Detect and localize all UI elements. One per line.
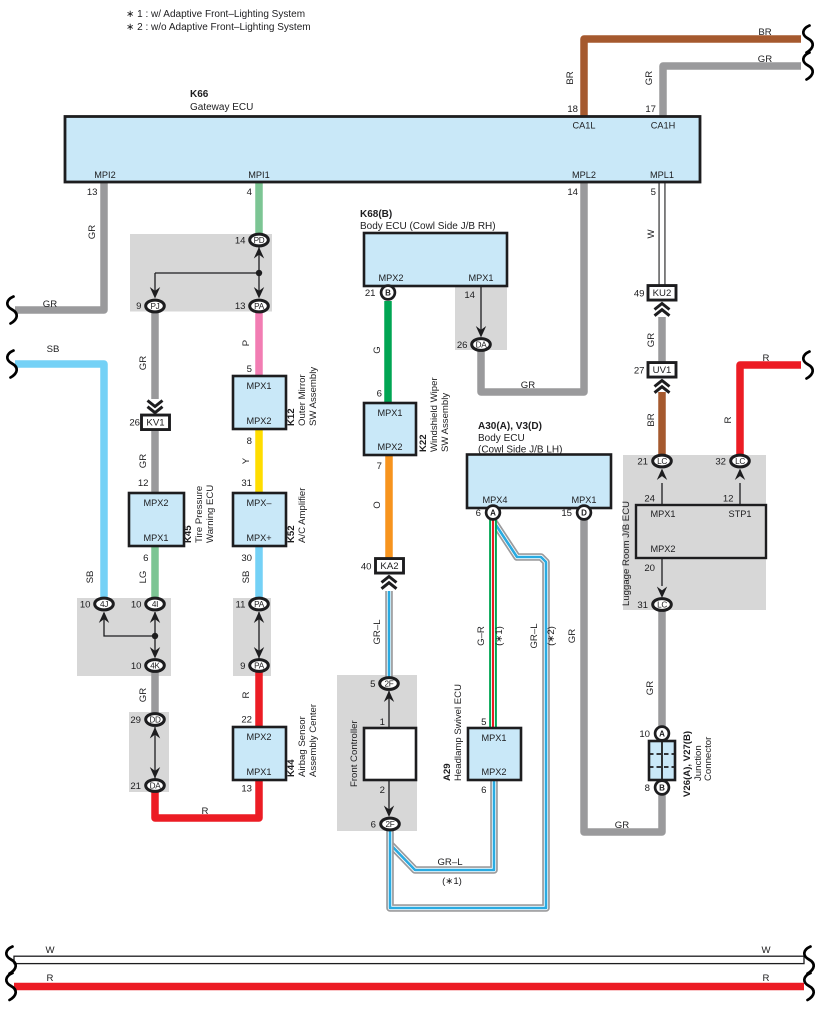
svg-text:R: R [241,691,252,698]
svg-text:PA: PA [254,600,265,609]
svg-text:GR: GR [615,820,629,831]
svg-text:K68(B): K68(B) [360,209,392,220]
svg-text:GR: GR [646,333,657,347]
svg-text:30: 30 [241,553,252,564]
svg-text:13: 13 [241,784,252,795]
svg-text:4K: 4K [150,661,160,670]
svg-text:KU2: KU2 [653,288,672,299]
svg-text:Y: Y [241,457,252,464]
svg-text:29: 29 [130,715,141,726]
svg-text:8: 8 [247,436,252,447]
svg-text:BR: BR [565,71,576,84]
svg-text:5: 5 [481,717,486,728]
svg-text:R: R [47,973,54,984]
svg-text:24: 24 [644,494,655,505]
svg-text:CA1L: CA1L [573,121,596,131]
svg-text:P: P [241,340,252,346]
svg-text:2F: 2F [386,820,395,829]
svg-text:SW Assembly: SW Assembly [308,367,319,426]
svg-text:14: 14 [464,290,475,301]
svg-text:W: W [761,945,771,956]
svg-text:MPX+: MPX+ [246,533,271,543]
svg-text:21: 21 [365,288,376,299]
svg-text:GR: GR [138,688,149,702]
svg-text:DA: DA [476,340,488,349]
svg-text:R: R [723,416,734,423]
svg-text:MPX–: MPX– [246,498,272,508]
svg-text:R: R [763,973,770,984]
svg-text:GR: GR [87,225,98,239]
svg-text:GR–L: GR–L [372,619,383,645]
svg-text:PA: PA [254,661,265,670]
svg-text:MPX4: MPX4 [482,495,507,505]
svg-text:10: 10 [639,729,650,740]
svg-text:GR: GR [138,356,149,370]
svg-text:UV1: UV1 [653,365,672,376]
svg-text:K45: K45 [183,525,194,543]
svg-text:MPX2: MPX2 [481,767,506,777]
svg-text:R: R [202,806,209,817]
svg-text:MPX1: MPX1 [143,533,168,543]
svg-text:6: 6 [481,785,486,796]
svg-text:LC: LC [735,457,745,466]
svg-text:W: W [45,945,55,956]
svg-text:LC: LC [657,600,667,609]
svg-text:Airbag Sensor: Airbag Sensor [297,715,308,777]
svg-text:KA2: KA2 [380,561,398,572]
svg-text:A29: A29 [442,763,453,781]
svg-text:PJ: PJ [151,302,160,311]
svg-text:LG: LG [138,571,149,584]
svg-text:21: 21 [637,457,648,468]
svg-text:MPX2: MPX2 [143,498,168,508]
svg-text:13: 13 [87,187,98,198]
svg-text:MPX1: MPX1 [377,408,402,418]
svg-text:MPX1: MPX1 [481,733,506,743]
svg-text:4I: 4I [152,600,158,609]
svg-text:CA1H: CA1H [651,121,676,131]
svg-text:PA: PA [254,302,265,311]
svg-text:10: 10 [131,600,142,611]
svg-text:Assembly Center: Assembly Center [308,703,319,777]
svg-text:31: 31 [241,478,252,489]
svg-text:Warning ECU: Warning ECU [205,485,216,543]
svg-text:4: 4 [247,187,253,198]
svg-text:49: 49 [634,288,645,299]
svg-text:R: R [763,353,770,364]
svg-text:SB: SB [85,571,96,584]
svg-text:A/C Amplifier: A/C Amplifier [297,487,308,543]
svg-text:GR: GR [645,681,656,695]
svg-text:11: 11 [236,600,246,611]
svg-text:D: D [581,508,587,517]
svg-text:K52: K52 [286,525,297,543]
svg-text:5: 5 [370,679,375,690]
svg-text:MPX2: MPX2 [246,732,271,742]
svg-text:7: 7 [377,461,382,472]
svg-text:MPX2: MPX2 [377,442,402,452]
svg-text:MPX1: MPX1 [246,381,271,391]
svg-text:12: 12 [723,494,734,505]
svg-text:GR–L: GR–L [437,857,463,868]
svg-text:6: 6 [377,389,382,400]
svg-text:MPX2: MPX2 [650,544,675,554]
svg-text:MPX1: MPX1 [650,509,675,519]
svg-text:9: 9 [136,301,141,312]
svg-text:14: 14 [567,187,578,198]
svg-text:∗ 2 : w/o Adaptive Front–Light: ∗ 2 : w/o Adaptive Front–Lighting System [126,22,311,33]
svg-text:STP1: STP1 [729,509,752,519]
svg-text:2F: 2F [385,679,394,688]
svg-text:B: B [385,288,391,297]
svg-text:∗ 1 : w/ Adaptive Front–Lighti: ∗ 1 : w/ Adaptive Front–Lighting System [126,9,305,20]
svg-text:V26(A), V27(B): V26(A), V27(B) [682,731,693,797]
svg-text:G: G [372,346,383,353]
svg-text:Gateway ECU: Gateway ECU [190,102,253,113]
svg-text:LC: LC [657,457,667,466]
svg-text:MPX1: MPX1 [571,495,596,505]
svg-text:22: 22 [241,715,252,726]
svg-text:4J: 4J [100,600,108,609]
svg-text:12: 12 [138,478,149,489]
svg-text:GR: GR [758,54,772,65]
svg-text:SB: SB [47,344,60,355]
svg-text:SB: SB [241,571,252,584]
svg-text:K44: K44 [286,759,297,777]
svg-text:W: W [646,229,657,239]
svg-text:B: B [659,783,665,792]
svg-text:32: 32 [715,457,726,468]
svg-text:A: A [490,508,496,517]
svg-text:27: 27 [634,365,645,376]
svg-text:O: O [372,501,383,508]
svg-text:K12: K12 [286,408,297,426]
svg-text:6: 6 [143,553,148,564]
svg-text:Body ECU (Cowl Side J/B RH): Body ECU (Cowl Side J/B RH) [360,221,496,232]
svg-text:MPI2: MPI2 [94,170,115,180]
svg-text:10: 10 [80,600,91,611]
svg-text:17: 17 [645,104,656,115]
svg-text:6: 6 [371,820,376,831]
svg-text:26: 26 [129,418,140,429]
svg-text:9: 9 [240,661,245,672]
svg-text:A30(A), V3(D): A30(A), V3(D) [478,421,542,432]
svg-text:G–R: G–R [476,626,487,646]
svg-text:Windshield Wiper: Windshield Wiper [429,377,440,452]
svg-text:31: 31 [637,600,648,611]
svg-text:PD: PD [254,236,265,245]
svg-text:10: 10 [131,661,142,672]
svg-text:Tire Pressure: Tire Pressure [194,486,205,543]
svg-text:K22: K22 [418,434,429,452]
svg-text:(∗2): (∗2) [546,626,557,646]
svg-text:Body ECU: Body ECU [478,433,525,444]
svg-text:KV1: KV1 [146,418,164,429]
svg-text:13: 13 [235,301,246,312]
svg-text:DD: DD [149,715,161,724]
svg-text:MPX2: MPX2 [246,416,271,426]
svg-text:A: A [659,729,665,738]
svg-text:Connector: Connector [703,736,714,781]
svg-text:18: 18 [567,104,578,115]
svg-text:GR: GR [521,380,535,391]
svg-text:GR: GR [567,629,578,643]
svg-text:Luggage Room J/B ECU: Luggage Room J/B ECU [621,501,632,606]
svg-text:26: 26 [457,340,468,351]
svg-text:21: 21 [130,781,141,792]
svg-text:1: 1 [380,717,385,728]
svg-text:6: 6 [476,508,481,519]
svg-text:MPX2: MPX2 [378,273,403,283]
svg-text:MPL2: MPL2 [572,170,596,180]
svg-text:(∗1): (∗1) [494,626,505,646]
svg-text:BR: BR [646,413,657,426]
svg-text:SW Assembly: SW Assembly [440,393,451,452]
svg-text:5: 5 [651,187,656,198]
svg-text:(Cowl Side J/B LH): (Cowl Side J/B LH) [478,445,562,456]
svg-text:40: 40 [361,561,372,572]
svg-text:DA: DA [150,781,162,790]
svg-text:Headlamp Swivel ECU: Headlamp Swivel ECU [453,684,464,781]
svg-text:MPX1: MPX1 [468,273,493,283]
svg-text:MPX1: MPX1 [246,767,271,777]
svg-text:20: 20 [644,563,655,574]
svg-text:MPL1: MPL1 [650,170,674,180]
svg-text:2: 2 [380,785,385,796]
svg-text:GR–L: GR–L [529,623,540,649]
svg-text:GR: GR [644,71,655,85]
svg-text:15: 15 [561,508,572,519]
svg-text:Front Controller: Front Controller [349,720,360,787]
svg-text:14: 14 [235,236,246,247]
svg-text:8: 8 [645,783,650,794]
svg-text:GR: GR [43,299,57,310]
svg-text:GR: GR [138,454,149,468]
svg-text:BR: BR [758,27,771,38]
svg-text:5: 5 [247,364,252,375]
svg-text:Outer Mirror: Outer Mirror [297,373,308,426]
svg-text:MPI1: MPI1 [248,170,269,180]
svg-text:(∗1): (∗1) [442,876,462,887]
svg-text:K66: K66 [190,89,209,100]
